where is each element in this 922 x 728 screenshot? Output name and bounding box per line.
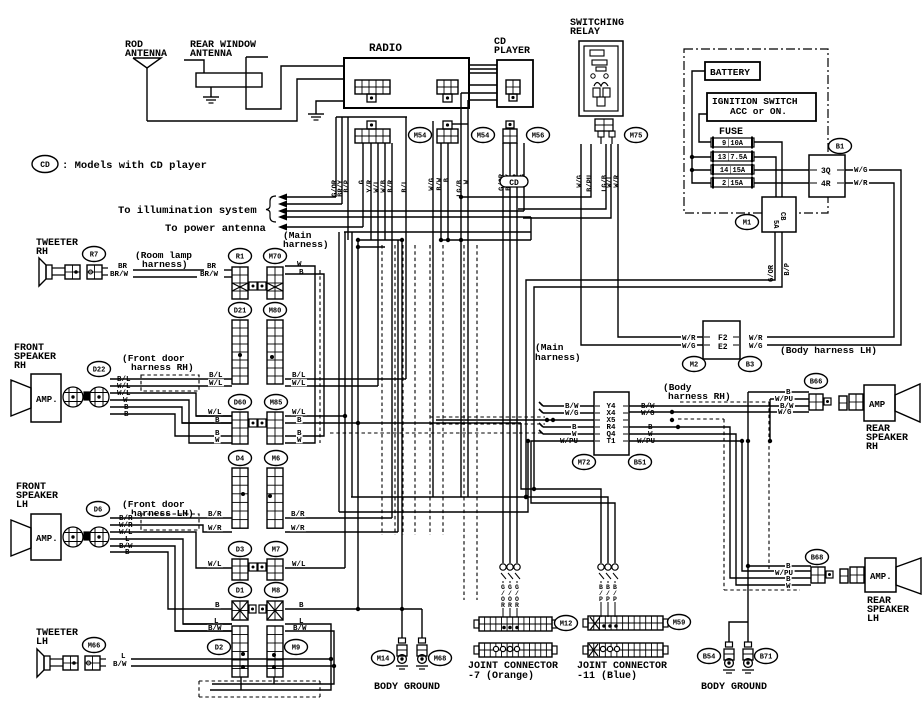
wire G/OR radio [335, 117, 337, 197]
wire R4 B right [629, 427, 811, 578]
connector D6 oval [87, 502, 110, 517]
svg-text:M75: M75 [630, 133, 643, 141]
svg-text:To power antenna: To power antenna [165, 223, 267, 235]
svg-text:R7: R7 [90, 252, 98, 260]
wire G/OR joint1 c [516, 187, 518, 563]
wire front lh W/R up [397, 240, 399, 532]
cd player label [494, 37, 530, 57]
wire m72 row X4 left [539, 409, 594, 413]
ground B54 terminal [723, 642, 735, 673]
connector M72 B51 box [594, 392, 629, 455]
svg-text:BODY GROUND: BODY GROUND [701, 682, 767, 693]
wire BR/W tweeter [133, 276, 232, 278]
wire relay W/G [581, 144, 703, 345]
radio label [369, 43, 402, 55]
wire fuse14 to B1 3Q [754, 169, 809, 171]
label B/L amp rh [116, 375, 132, 384]
wire B/W row right [629, 405, 809, 407]
label L d2 [213, 617, 220, 626]
svg-text:W/L: W/L [292, 380, 306, 388]
svg-text:B54: B54 [703, 654, 716, 662]
label G cd pin [520, 174, 528, 178]
svg-text:B/R: B/R [208, 511, 222, 519]
wire B/P radio [347, 117, 349, 240]
svg-text:B: B [299, 269, 304, 277]
joint connector blue strip2 [583, 643, 668, 657]
wire m9 BW right [212, 631, 334, 684]
label W/R right lh [290, 524, 306, 533]
cd option oval [500, 176, 528, 188]
svg-text:W/G: W/G [565, 410, 579, 418]
wire m6 B/R right [285, 517, 392, 519]
wire bus y240 a [356, 238, 404, 242]
wire m72 row Y4 left [539, 402, 594, 406]
label W/R f2 right [748, 334, 764, 343]
label G/OR joint1 [508, 584, 512, 609]
wire tweeter L [131, 657, 333, 661]
svg-text:3Q: 3Q [821, 167, 831, 176]
wire m72 row Q4 left [539, 430, 594, 434]
label B rear rh [785, 388, 792, 397]
main harness label top [283, 230, 329, 250]
wire bus y240 b [439, 238, 531, 242]
connector M70 grid [258, 267, 283, 299]
svg-text:13│7.5A: 13│7.5A [718, 153, 748, 162]
svg-text:R: R [501, 602, 505, 609]
dashed harness line 3 [402, 245, 404, 535]
joint connector orange strip1 [474, 617, 557, 631]
connector M12 oval [555, 616, 578, 631]
label B/R amp lh [118, 514, 134, 523]
connector B1 oval [829, 139, 852, 154]
wire amp lh W/R [110, 525, 232, 532]
svg-text:B: B [125, 549, 130, 557]
svg-text:W/R: W/R [208, 525, 222, 533]
connector M85 oval [265, 395, 288, 410]
svg-text:B71: B71 [760, 654, 773, 662]
svg-text:To illumination system: To illumination system [118, 205, 257, 217]
svg-text:-7 (Orange): -7 (Orange) [468, 670, 534, 682]
connector M80 tall grid [267, 320, 283, 384]
connector D1 grid [232, 601, 256, 620]
wire G/OR joint1 b [509, 187, 511, 563]
ground M68 terminal [416, 638, 428, 669]
wire amp rh W/L2 [110, 393, 232, 416]
connector M9 oval [285, 640, 308, 655]
svg-text:W/L: W/L [208, 561, 222, 569]
svg-text:W/PU: W/PU [637, 438, 656, 446]
circuit breaker M1 box [762, 197, 796, 232]
wire amp lh L [110, 539, 232, 624]
label G/OR cd pin [499, 173, 507, 191]
body ground label right [701, 682, 767, 693]
rod antenna label [125, 40, 167, 60]
connector M70 oval [264, 249, 287, 264]
svg-text:P: P [613, 596, 617, 603]
svg-text:AMP: AMP [869, 400, 886, 410]
label B/W rear rh [779, 402, 795, 411]
label B/W m9 [292, 624, 308, 633]
wire illum4 stub [530, 217, 532, 240]
dashed harness cross 2 [430, 417, 545, 424]
label B m8 [298, 601, 305, 610]
wire joint1 lead [509, 581, 511, 617]
label LG/B cd gap [457, 179, 465, 197]
joint connector blue strip1 [583, 616, 668, 630]
wires radio to cd player [461, 65, 497, 100]
legend CD oval [32, 156, 58, 173]
rear speaker RH label [866, 424, 908, 453]
label B d60 [214, 416, 221, 425]
svg-text:B/W: B/W [113, 661, 127, 669]
wire joint2 lead [614, 581, 616, 617]
arrow illumination 3 [278, 208, 524, 215]
rear speaker LH horn [896, 558, 921, 594]
svg-text:M59: M59 [673, 620, 686, 628]
label W/G m72 r [640, 409, 656, 418]
connector D3 oval [229, 542, 252, 557]
label B amp rh [123, 403, 130, 412]
label B/W m72 r [640, 402, 656, 411]
tweeter RH speaker [39, 258, 52, 286]
label B rear lh [785, 562, 792, 571]
svg-text:B: B [215, 602, 220, 610]
front door harness RH label [122, 353, 194, 373]
legend text [62, 160, 207, 172]
wire joint1 lead [516, 581, 518, 617]
svg-text:W/G: W/G [854, 167, 868, 175]
fuse 13 7.5A [711, 151, 754, 163]
label W/R b1 [853, 179, 869, 188]
svg-text:14│15A: 14│15A [720, 166, 746, 175]
fuse 14 15A [711, 164, 754, 176]
label B/P radio pin [344, 180, 352, 193]
wire wrap over M54 left [336, 116, 407, 118]
label G/OR joint1 [501, 584, 505, 609]
label BR/W left [110, 271, 129, 279]
wire joint2 lead [607, 581, 609, 617]
connector B71 oval [755, 649, 778, 664]
wire W/L radio [377, 143, 379, 386]
wire BR tweeter [133, 269, 232, 271]
rear window antenna element [196, 73, 262, 87]
connector M2 oval [683, 357, 706, 372]
svg-text:RH: RH [36, 247, 48, 258]
label W/L radio pin [374, 180, 382, 193]
connector M7 grid [258, 559, 283, 580]
wire ground M14 long [401, 240, 403, 609]
connector M8 oval [265, 583, 288, 598]
svg-text:FUSE: FUSE [719, 127, 743, 138]
svg-text:F2: F2 [718, 334, 728, 343]
svg-text:W/PU: W/PU [560, 438, 579, 446]
radio connector grid B [437, 80, 458, 102]
wire amp lh B/W [110, 546, 232, 631]
relay pins [598, 131, 615, 144]
svg-text:M8: M8 [272, 588, 280, 596]
label W/L d60 [207, 408, 223, 417]
svg-text:D1: D1 [236, 588, 244, 596]
svg-text:harness RH): harness RH) [131, 362, 194, 373]
svg-text:BODY GROUND: BODY GROUND [374, 682, 440, 693]
dashed divider tweeter net [319, 270, 321, 443]
label W/G m72 l [564, 409, 580, 418]
rod antenna [133, 58, 161, 121]
joint connector blue label [577, 661, 667, 682]
wire Y/R radio [370, 143, 372, 240]
svg-text:harness): harness) [283, 239, 329, 250]
ground rear window antenna [203, 87, 219, 103]
connector D4 tall grid [232, 468, 248, 528]
wire relay B/PU [459, 144, 591, 199]
connector B54 oval [698, 649, 721, 664]
connector D21 oval [229, 303, 252, 318]
wire d2 bottom stub [241, 677, 274, 690]
wire wrap over M54 right [452, 123, 468, 125]
svg-text:M70: M70 [269, 254, 282, 262]
svg-text:(Body harness LH): (Body harness LH) [780, 345, 877, 356]
wire B/R radio [391, 143, 393, 518]
wire B1 W/G right [767, 170, 901, 345]
svg-text:M1: M1 [743, 220, 751, 228]
wire d2 BW left [175, 630, 232, 632]
wire B/L radio [405, 117, 407, 379]
label B/L mid rh [208, 371, 224, 380]
wire Q4 W right [629, 434, 811, 585]
connector D60 grid [232, 412, 257, 444]
svg-text:W/R: W/R [749, 335, 763, 343]
wire joint2 a [521, 423, 601, 563]
svg-text:harness): harness) [142, 259, 188, 270]
svg-text:W/G: W/G [641, 410, 655, 418]
svg-text:harness RH): harness RH) [668, 391, 731, 402]
label X4 m72 [595, 410, 628, 418]
label B/W m72 l [564, 402, 580, 411]
label T1 m72 [595, 438, 628, 446]
label W/R amp lh [118, 521, 134, 530]
connector M72 oval [573, 455, 596, 470]
connector D1 oval [229, 583, 252, 598]
svg-text:W: W [297, 437, 302, 445]
label B2 rear lh [785, 575, 792, 584]
front speaker RH amp [11, 374, 61, 422]
wire LG/B cd [460, 93, 462, 497]
svg-text:BR: BR [118, 263, 128, 271]
wire W m70 [285, 266, 315, 443]
wire cd pin4 [523, 143, 525, 176]
rear speaker RH amp [864, 385, 895, 421]
connector M68 oval [429, 651, 452, 666]
label B/PU relay pin [587, 175, 595, 192]
wire relay W/L [523, 144, 611, 218]
front LH round connectors [63, 527, 109, 547]
label X5 m72 [595, 417, 628, 425]
wire fuse9 to M1 [754, 142, 782, 197]
label B/P cd pin [513, 174, 521, 187]
label B/R mid lh [207, 510, 223, 519]
label G radio pin [359, 180, 367, 184]
label W/B radio pin [381, 179, 389, 192]
svg-text:D3: D3 [236, 547, 244, 555]
label B/P m1 [784, 263, 792, 276]
connector B51 oval [629, 455, 652, 470]
tweeter LH connectors [50, 656, 106, 670]
dashed rear lh harness [678, 419, 800, 590]
svg-text:E2: E2 [718, 343, 728, 352]
svg-text:harness): harness) [535, 352, 581, 363]
connector M85 grid [258, 412, 283, 444]
wire rear rh B [748, 391, 809, 393]
label W/L m85r [291, 408, 307, 417]
label BR/Y radio pin [338, 179, 346, 197]
fuse 2 15A [711, 177, 754, 189]
body harness LH label [780, 345, 877, 356]
svg-text:W/R: W/R [291, 525, 305, 533]
wire rear lh B row [748, 565, 811, 567]
connector M1 oval [736, 215, 759, 230]
svg-text:AMP.: AMP. [36, 534, 58, 544]
brace [266, 196, 276, 222]
label B/W tweeter [113, 661, 127, 669]
label B/P joint2 [606, 584, 610, 603]
svg-text:5A: 5A [771, 220, 779, 229]
svg-text:BR/W: BR/W [200, 271, 219, 279]
wire B radio2 [447, 143, 449, 240]
svg-text:W/G: W/G [749, 343, 763, 351]
wire cd pin2 [509, 143, 511, 176]
svg-text:B66: B66 [810, 379, 823, 387]
svg-text:LH: LH [16, 500, 28, 511]
label G/OR m1 [768, 264, 776, 282]
wire m85 W/L right [285, 385, 378, 387]
wire battery rail [690, 71, 711, 183]
front RH round connectors [63, 387, 109, 407]
label B m70 [299, 269, 304, 277]
connector M80 oval [264, 303, 287, 318]
svg-text:W: W [786, 583, 791, 591]
connector R1 oval [229, 249, 252, 264]
label W/L mid rh [208, 379, 224, 388]
dashed harness line 4 [414, 245, 416, 535]
label G/OR joint1 [515, 584, 519, 609]
svg-text:M9: M9 [292, 645, 300, 653]
svg-text:M56: M56 [532, 133, 545, 141]
arrow illumination 2 [278, 201, 342, 208]
connector B68 oval [806, 550, 829, 565]
svg-text:D60: D60 [234, 400, 247, 408]
connector M14 oval [372, 651, 395, 666]
wire W/B radio [384, 143, 386, 240]
label B radio pin2 [444, 177, 452, 182]
battery box [705, 62, 760, 80]
wire joint2 b [351, 495, 608, 563]
label B/L right rh [291, 371, 307, 380]
svg-text:M7: M7 [272, 547, 280, 555]
svg-text:R: R [508, 602, 512, 609]
relay internals [590, 50, 610, 106]
radio connector grid A [355, 80, 390, 102]
tweeter RH label [36, 238, 78, 258]
svg-text:LH: LH [867, 614, 879, 625]
connector M7 oval [265, 542, 288, 557]
label B2 d60 [214, 429, 221, 438]
connector M6 oval [265, 451, 288, 466]
fuse 9 10A [711, 137, 754, 149]
joint connector orange label [468, 661, 558, 682]
svg-text:W/R: W/R [854, 180, 868, 188]
wire M1 G/OR [524, 232, 775, 499]
svg-text:LH: LH [36, 637, 48, 648]
svg-text:B1: B1 [836, 144, 844, 152]
wire joint2 lead [600, 581, 602, 617]
connector M56 oval [527, 128, 550, 143]
svg-text:2│15A: 2│15A [722, 179, 744, 188]
connector R7 oval [83, 247, 106, 262]
wire m72 row R4 left [539, 423, 594, 427]
svg-text:M12: M12 [560, 621, 573, 629]
rear lh connector 2 [840, 567, 864, 583]
wire d60 W/L left [196, 415, 232, 417]
svg-text:W/G: W/G [778, 409, 792, 417]
wire W cd [467, 100, 469, 497]
label W/L relay pin [607, 175, 615, 188]
label L amp lh [124, 535, 131, 544]
wire rear rh W/PU [768, 399, 809, 443]
wire m9 L right [210, 624, 331, 690]
wire cd illum [523, 187, 525, 211]
wire m7 W/L right [285, 567, 345, 569]
connector B1 box [809, 155, 845, 197]
wire B/W radio2 [440, 143, 442, 240]
svg-text:G/OR: G/OR [768, 264, 776, 282]
label B amp rh [123, 410, 130, 419]
ground radio case [308, 101, 344, 120]
svg-text:M14: M14 [377, 656, 390, 664]
svg-text:D6: D6 [94, 507, 102, 515]
wire B m70 [285, 274, 324, 436]
connector M75 oval [625, 128, 648, 143]
ground M14 terminal [396, 638, 408, 669]
dashed harness line 8 [476, 245, 478, 600]
label W/L m7 [291, 560, 307, 569]
svg-text:R: R [515, 602, 519, 609]
wire joint2 c [531, 441, 615, 563]
front speaker RH label [14, 343, 56, 372]
connector M8 grid [259, 601, 283, 620]
label B/W amp lh [118, 542, 134, 551]
label BR/W right [200, 271, 219, 279]
main harness label mid [535, 342, 581, 363]
svg-text:B/P: B/P [784, 263, 792, 276]
svg-text:B68: B68 [811, 555, 824, 563]
cd player connector grid [506, 80, 520, 101]
svg-text:BR/W: BR/W [110, 271, 129, 279]
wire tweeter BW [131, 664, 336, 668]
label W/PU m72 r [636, 437, 657, 446]
label W/PU rear rh [774, 395, 795, 404]
dashed harness line 1 [381, 245, 383, 535]
wire B ground long [357, 240, 359, 609]
svg-text:T1: T1 [606, 438, 616, 446]
body harness RH label [663, 382, 731, 402]
wire bus y247 [356, 245, 385, 249]
label B d1 [214, 601, 221, 610]
front door harness LH label [122, 499, 194, 519]
dashed body harness RH border [680, 402, 769, 569]
connector M59 oval [668, 615, 691, 630]
svg-text:R1: R1 [236, 254, 244, 262]
connector D4 oval [229, 451, 252, 466]
